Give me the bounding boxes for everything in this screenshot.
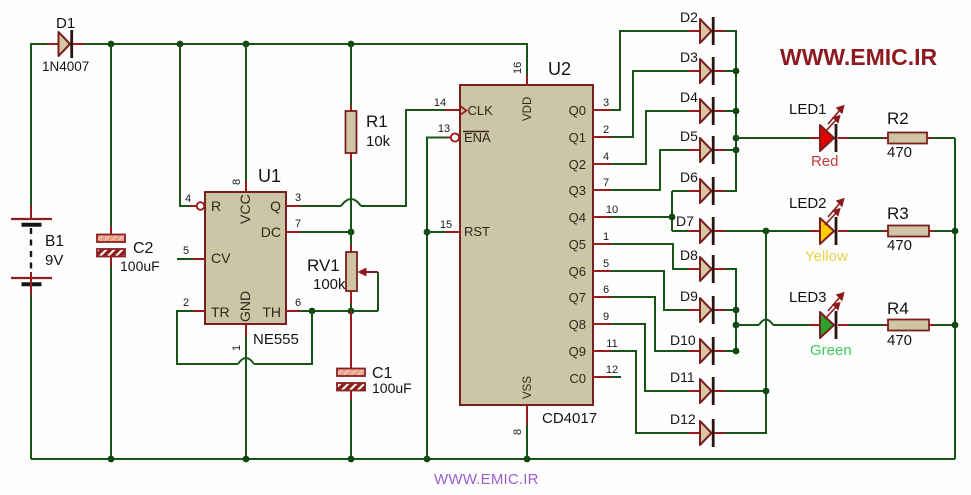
svg-text:470: 470: [887, 144, 912, 161]
pin Q5 wire to D8: [593, 244, 689, 269]
svg-text:TH: TH: [262, 304, 281, 320]
junction: TH/RV1/C1 node: [348, 308, 355, 315]
svg-text:D8: D8: [680, 247, 698, 263]
svg-text:470: 470: [887, 332, 912, 349]
diode D12: [670, 411, 726, 447]
resistor R4: [848, 299, 955, 349]
svg-text:6: 6: [603, 284, 609, 296]
svg-text:R3: R3: [887, 204, 909, 223]
node: ground junction U1 GND: [243, 456, 250, 463]
battery B1: [11, 219, 64, 295]
svg-text:9: 9: [603, 311, 609, 323]
svg-text:U1: U1: [258, 166, 281, 186]
junction: D5 cathode on red bus: [733, 147, 740, 154]
svg-text:NE555: NE555: [253, 331, 299, 348]
diode D7: [676, 213, 726, 245]
wire: green group cathode bus D8-D10: [725, 269, 739, 354]
wire: green bus to LED3 with hop over yellow bus: [736, 320, 810, 326]
svg-text:GND: GND: [237, 291, 253, 322]
diode D3: [680, 49, 726, 85]
wire: red group cathode bus D2-D6: [725, 31, 739, 191]
svg-text:7: 7: [295, 218, 301, 230]
diode D2: [680, 9, 726, 45]
pin Q0 wire to D2: [593, 31, 689, 110]
svg-text:D11: D11: [670, 369, 695, 385]
resistor R2: [848, 109, 955, 161]
wire: U1 VCC pin 8 branch: [245, 44, 247, 181]
node: top rail junction at U1 VCC: [243, 41, 250, 48]
svg-text:D3: D3: [680, 49, 698, 65]
pin 15 RST wire: [427, 231, 460, 233]
junction: D11 cathode on yellow bus: [763, 388, 770, 395]
svg-text:CD4017: CD4017: [542, 410, 597, 427]
diode D9: [680, 288, 726, 324]
svg-text:Red: Red: [811, 153, 839, 170]
svg-text:RV1: RV1: [307, 256, 340, 275]
junction: D10 cathode on green bus: [733, 348, 740, 355]
wire: left supply rail from top rail down to battery: [31, 44, 52, 206]
pin 6 TH wire: [286, 308, 378, 315]
svg-text:2: 2: [183, 297, 189, 309]
diode D8: [680, 247, 726, 283]
wire: top supply rail: [84, 44, 527, 76]
svg-text:Q4: Q4: [569, 210, 586, 225]
svg-text:D1: D1: [56, 15, 75, 32]
pin Q2 wire to D4: [593, 111, 689, 164]
pin 4 lead: [190, 205, 197, 207]
svg-text:3: 3: [295, 192, 301, 204]
svg-text:D2: D2: [680, 9, 698, 25]
wire: right return rail: [952, 138, 959, 459]
svg-text:Q6: Q6: [569, 264, 586, 279]
svg-text:R4: R4: [887, 299, 909, 318]
wire: battery bottom lead to ground rail: [30, 295, 32, 459]
node: ground junction ENA/RST: [424, 456, 431, 463]
svg-text:10: 10: [606, 204, 618, 216]
junction: ENA/RST tie: [424, 229, 431, 236]
pin 7 DC to R1/RV1: [286, 229, 354, 236]
svg-text:D12: D12: [670, 411, 696, 427]
svg-text:Q9: Q9: [569, 344, 586, 359]
svg-text:D10: D10: [670, 332, 696, 348]
svg-text:Q5: Q5: [569, 237, 586, 252]
svg-text:8: 8: [512, 429, 524, 435]
junction: D4 cathode on red bus: [733, 108, 740, 115]
svg-text:WWW.EMIC.IR: WWW.EMIC.IR: [434, 471, 539, 488]
pin Q6 wire to D9: [593, 271, 689, 310]
svg-text:100k: 100k: [313, 276, 346, 293]
svg-text:11: 11: [606, 338, 617, 350]
svg-text:R1: R1: [366, 112, 388, 131]
svg-text:VCC: VCC: [237, 194, 253, 224]
svg-text:3: 3: [603, 97, 609, 109]
svg-text:5: 5: [183, 245, 189, 257]
svg-text:12: 12: [606, 364, 618, 376]
pin Q9 wire to D12: [593, 351, 689, 433]
pin 5 CV stub: [177, 258, 205, 260]
resistor R3: [848, 204, 955, 254]
diode D5: [680, 128, 726, 164]
svg-text:1: 1: [603, 231, 609, 243]
svg-text:R: R: [211, 198, 221, 214]
svg-text:B1: B1: [45, 233, 64, 250]
pin Q1 wire to D3: [593, 71, 689, 137]
svg-text:2: 2: [603, 124, 609, 136]
wire: red bus to LED1: [736, 137, 810, 139]
svg-text:C0: C0: [569, 371, 586, 386]
resistor R1: [346, 44, 391, 232]
svg-text:470: 470: [887, 237, 912, 254]
svg-text:4: 4: [603, 151, 609, 163]
svg-text:D4: D4: [680, 89, 698, 105]
pin Q7 wire to D10: [593, 297, 689, 351]
svg-text:15: 15: [440, 219, 452, 231]
pin Q3 wire to D5: [593, 150, 689, 190]
pin 3 Q output to U2 CLK: [286, 110, 460, 206]
capacitor C2: [97, 226, 160, 274]
svg-text:TR: TR: [211, 304, 230, 320]
svg-text:13: 13: [438, 123, 450, 135]
svg-text:RST: RST: [464, 224, 490, 239]
node: top rail junction at C2: [108, 41, 115, 48]
diode D11: [670, 369, 726, 405]
svg-text:Q2: Q2: [569, 157, 586, 172]
LED3 green: [789, 289, 852, 359]
pin 13 ENA circle and wire to RST/ground: [424, 133, 460, 459]
svg-text:LED3: LED3: [789, 289, 827, 306]
pin Q8 wire to D11: [593, 324, 689, 391]
junction: TR loop to TH: [309, 308, 316, 315]
svg-text:D9: D9: [680, 288, 698, 304]
svg-text:100uF: 100uF: [372, 380, 412, 396]
diode D4: [680, 89, 726, 125]
diode D1: [42, 15, 89, 74]
pin 2 TR loop to TH: [177, 311, 312, 364]
junction: yellow bus at LED2 row: [763, 228, 770, 235]
svg-text:D6: D6: [680, 169, 698, 185]
pin 1 GND to ground rail: [245, 324, 247, 459]
svg-text:WWW.EMIC.IR: WWW.EMIC.IR: [780, 44, 938, 70]
pin Q4 wire to D6 and D7: [593, 191, 689, 231]
potentiometer RV1: [307, 232, 378, 311]
svg-text:8: 8: [231, 179, 243, 185]
wire: C2 branch from top rail: [110, 44, 112, 226]
diode D6: [680, 169, 726, 205]
svg-text:1: 1: [231, 345, 243, 351]
svg-text:Q3: Q3: [569, 183, 586, 198]
junction: LED3 branch on green bus: [733, 322, 740, 329]
svg-text:Yellow: Yellow: [805, 248, 848, 265]
wire: C2 to ground rail: [110, 266, 112, 459]
svg-text:LED2: LED2: [789, 195, 827, 212]
svg-text:14: 14: [434, 97, 446, 109]
junction: D3 cathode on red bus: [733, 68, 740, 75]
node: top rail junction at R1: [348, 41, 355, 48]
svg-text:D7: D7: [676, 213, 694, 229]
svg-text:16: 16: [512, 62, 524, 74]
svg-text:Q7: Q7: [569, 290, 586, 305]
svg-text:CLK: CLK: [468, 103, 494, 118]
svg-text:10k: 10k: [366, 133, 391, 150]
junction: Q4 to D6/D7: [669, 214, 676, 221]
IC U2 CD4017 body: [434, 59, 618, 435]
junction: LED1 branch on red bus: [733, 135, 740, 142]
svg-text:DC: DC: [261, 224, 281, 240]
node: ground junction U2 VSS: [524, 456, 531, 463]
node: top rail junction at U1 reset: [177, 41, 184, 48]
svg-text:VDD: VDD: [522, 97, 534, 121]
pin 8 VSS lead to ground: [526, 405, 528, 459]
svg-text:5: 5: [603, 258, 609, 270]
svg-text:R2: R2: [887, 109, 909, 128]
junction: R4 to return rail: [952, 322, 959, 329]
svg-text:Q0: Q0: [569, 103, 586, 118]
diode D10: [670, 332, 726, 365]
wire: ground rail: [31, 458, 955, 460]
junction: D9 cathode on green bus: [733, 307, 740, 314]
svg-text:Green: Green: [810, 342, 852, 359]
pin 16 VDD lead: [526, 75, 528, 85]
svg-text:Q: Q: [270, 198, 281, 214]
svg-text:100uF: 100uF: [120, 258, 160, 274]
LED1 red: [789, 101, 848, 170]
svg-text:7: 7: [603, 177, 609, 189]
node: ground junction C2: [108, 456, 115, 463]
wire: battery top lead: [30, 206, 32, 219]
capacitor C1: [337, 311, 412, 459]
LED2 yellow: [789, 195, 848, 265]
svg-text:C2: C2: [133, 240, 154, 257]
svg-text:Q1: Q1: [569, 130, 586, 145]
svg-text:6: 6: [295, 297, 301, 309]
wire: yellow group from D7 to LED2: [725, 228, 810, 433]
node: ground junction C1: [348, 456, 355, 463]
svg-text:CV: CV: [211, 250, 231, 266]
svg-text:D5: D5: [680, 128, 698, 144]
svg-text:LED1: LED1: [789, 101, 827, 118]
svg-text:9V: 9V: [45, 252, 63, 269]
svg-text:4: 4: [185, 193, 191, 205]
wire: U1 reset pin 4 branch: [180, 44, 190, 206]
svg-text:1N4007: 1N4007: [42, 59, 89, 74]
svg-text:Q8: Q8: [569, 317, 586, 332]
junction: DC/R1/RV1 node: [348, 229, 355, 236]
svg-text:VSS: VSS: [522, 376, 534, 399]
junction: R3 to return rail: [952, 228, 959, 235]
pin C0 stub: [593, 376, 621, 378]
svg-text:U2: U2: [548, 59, 571, 79]
op-amp U1 NE555 body: [183, 166, 301, 351]
